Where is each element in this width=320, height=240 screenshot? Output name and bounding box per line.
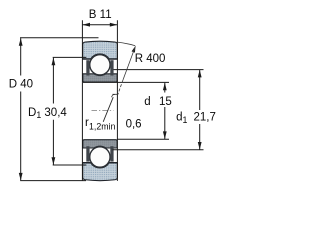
dimension B line bbox=[82, 24, 117, 26]
inner ring section bbox=[83, 74, 117, 82]
R 400 leader arrow bbox=[132, 46, 136, 53]
dimension D1 bottom arrow bbox=[52, 157, 56, 165]
R 400 side face arc bbox=[117, 42, 135, 46]
bearing upper half section bbox=[83, 41, 118, 82]
chamfer tick bbox=[112, 93, 117, 95]
svg-text:1,2min: 1,2min bbox=[89, 122, 116, 132]
dimension D line bbox=[20, 38, 22, 180]
bearing lower half section (mirrored) bbox=[83, 140, 118, 181]
svg-text:21,7: 21,7 bbox=[194, 112, 216, 124]
dimension B left arrow bbox=[82, 23, 90, 27]
outer ring section bbox=[83, 41, 118, 59]
left shield bbox=[86, 60, 89, 75]
dimension D1 top arrow bbox=[52, 58, 56, 66]
R 400 leader line lower dashed bbox=[118, 80, 123, 95]
dimension d bottom arrow bbox=[163, 131, 167, 139]
cage annulus around ball bbox=[89, 54, 111, 76]
dimension d1 line bbox=[199, 70, 201, 150]
svg-text:15: 15 bbox=[159, 96, 172, 108]
dimension D1 line bbox=[52, 58, 54, 165]
dimension d top arrow bbox=[163, 83, 167, 91]
right shield bbox=[110, 60, 113, 75]
svg-text:R 400: R 400 bbox=[135, 53, 166, 65]
svg-text:B 11: B 11 bbox=[89, 9, 112, 21]
svg-text:0,6: 0,6 bbox=[126, 119, 142, 131]
dimension D1 top extension line bbox=[53, 56, 87, 58]
dimension d line bbox=[164, 83, 166, 139]
dimension D bottom extension line bbox=[20, 180, 86, 182]
dimension D top extension line bbox=[20, 37, 99, 39]
svg-text:D1 30,4: D1 30,4 bbox=[28, 107, 67, 120]
dimension D1 bottom extension line bbox=[53, 164, 87, 166]
r chamfer leader line bbox=[103, 97, 113, 122]
right face extension line bbox=[116, 20, 118, 181]
dimension d1 top extension line bbox=[114, 69, 204, 71]
dimension D bottom arrow bbox=[19, 173, 23, 181]
left face extension line bbox=[81, 20, 83, 181]
dimension d1 bottom extension line bbox=[113, 149, 204, 151]
outer ring raceway groove arc bbox=[91, 54, 109, 59]
svg-text:D 40: D 40 bbox=[9, 78, 33, 90]
dimension d1 top arrow bbox=[198, 70, 202, 78]
outer ring shoulder lines bbox=[83, 58, 118, 60]
svg-text:d: d bbox=[144, 96, 150, 108]
dimension B right arrow bbox=[110, 23, 118, 27]
dimension d top extension line bbox=[83, 81, 169, 83]
chamfer hook arc bbox=[112, 94, 115, 97]
R 400 leader line upper bbox=[123, 46, 135, 80]
ball bbox=[90, 55, 110, 75]
dimension d bottom extension line bbox=[117, 138, 169, 140]
dimension D top arrow bbox=[19, 38, 23, 46]
dimension d1 bottom arrow bbox=[198, 142, 202, 150]
axis centerline bbox=[92, 110, 114, 112]
